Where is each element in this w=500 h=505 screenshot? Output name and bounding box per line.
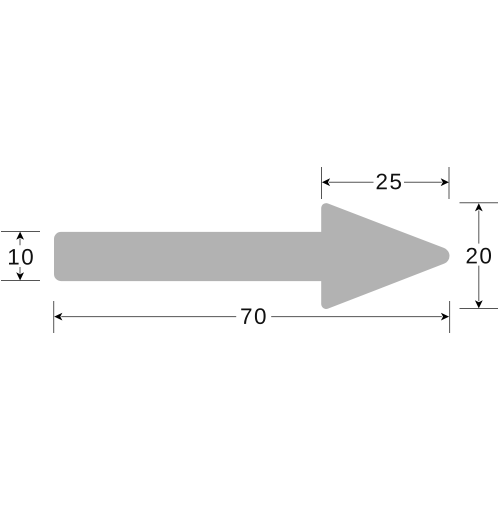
dim10 down arrowhead bbox=[16, 272, 24, 280]
dim10 extension line bottom bbox=[1, 280, 40, 282]
dim20 down arrowhead bbox=[475, 300, 483, 308]
dim25 label bbox=[377, 174, 401, 190]
dim20 extension line bottom bbox=[460, 308, 499, 310]
dim70 label bbox=[241, 308, 265, 324]
dim10 up arrowhead bbox=[16, 232, 24, 240]
dim70 line right segment bbox=[271, 316, 442, 318]
dim20 label bbox=[467, 248, 491, 264]
dim25 extension line left bbox=[321, 167, 323, 199]
dim25 right arrowhead bbox=[441, 178, 449, 186]
dim20 extension line top bbox=[460, 202, 499, 204]
dim70 left arrowhead bbox=[54, 313, 62, 321]
dim25 left arrowhead bbox=[322, 178, 330, 186]
dim20 up arrowhead bbox=[475, 203, 483, 211]
dim70 line left segment bbox=[61, 316, 236, 318]
dim70 extension line left bbox=[53, 301, 55, 333]
arrow head bbox=[321, 203, 449, 309]
dim10 upper stem bbox=[19, 239, 21, 246]
dim25 line left segment bbox=[329, 181, 374, 183]
dim25 extension line right bbox=[448, 167, 450, 199]
dim70 extension line right bbox=[449, 301, 451, 333]
dim10 lower stem bbox=[19, 267, 21, 274]
dim25 line right segment bbox=[404, 181, 442, 183]
dim20 lower stem bbox=[478, 266, 480, 302]
arrow shaft bbox=[54, 232, 344, 281]
dim10 label bbox=[9, 249, 33, 265]
dim20 upper stem bbox=[478, 211, 480, 244]
dim70 right arrowhead bbox=[441, 313, 449, 321]
dim10 extension line top bbox=[1, 231, 40, 233]
